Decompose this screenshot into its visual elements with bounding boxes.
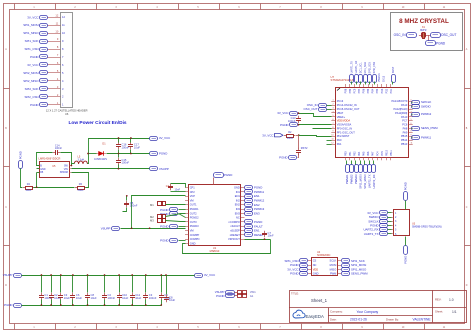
wire node to D1 anode [89, 153, 97, 155]
svg-text:10kΩ: 10kΩ [287, 137, 293, 140]
U7 right pin PC6 [402, 123, 412, 127]
net flag SPI2_CSN above U7 [373, 62, 377, 83]
net flag PGND at U6 pin 7 [30, 55, 47, 60]
svg-text:6: 6 [411, 123, 412, 125]
svg-text:PB2: PB2 [354, 151, 357, 156]
U1 right pin nRESET [230, 233, 245, 237]
wire UART1_RX to U7 top pin [356, 82, 358, 85]
connector U6 12x1.27 castellated header body [61, 13, 73, 108]
svg-text:COMPN: COMPN [190, 237, 200, 241]
svg-text:IN3: IN3 [236, 207, 241, 211]
U5 pin stubs [37, 166, 72, 173]
svg-text:PB9: PB9 [349, 88, 352, 93]
svg-text:PB4: PB4 [372, 88, 375, 93]
wire VIN to VSUPP flag [72, 168, 150, 170]
svg-text:MS8313: MS8313 [210, 249, 220, 253]
net flag PWM21 below U7 [346, 165, 350, 173]
svg-text:PA7: PA7 [372, 151, 375, 156]
U1 left pin PGND3 [185, 224, 199, 228]
U6 pin 8 [48, 45, 65, 51]
svg-text:PB8: PB8 [344, 88, 347, 93]
wire C8 top [87, 276, 89, 293]
junction C9 bottom [160, 304, 162, 306]
svg-text:PA1: PA1 [337, 142, 342, 146]
U6 pin 5 [48, 69, 65, 75]
net flag 3V_VCC at U6 pin 6 [27, 63, 47, 68]
U4 right pin PWM [330, 272, 341, 276]
U1 left pin VM [185, 229, 194, 233]
net flag SPI1_MISO at U6 pin 10 [23, 31, 47, 35]
svg-text:PGND1: PGND1 [190, 207, 199, 211]
svg-text:EN13: EN13 [382, 75, 385, 82]
net flag NRST above U7 [392, 66, 396, 82]
connector M1 [150, 202, 166, 207]
wire C1 top [41, 276, 43, 293]
svg-text:PGND: PGND [30, 103, 38, 107]
svg-text:1N5819WS: 1N5819WS [94, 158, 107, 161]
svg-text:UART1_RX: UART1_RX [355, 60, 358, 73]
wire M2 to OUT2 [166, 214, 186, 217]
svg-text:SPI2_SCK: SPI2_SCK [25, 87, 39, 91]
net flag OSC_IN (crystal) [394, 33, 417, 38]
net flag PWM13 at U1 right [245, 207, 265, 211]
U7 right pin PA12[PA10] [394, 107, 413, 111]
junction VSUPP wire 2 [149, 227, 151, 229]
wire U1 to RESET [244, 234, 246, 236]
capacitor C4 [168, 184, 173, 191]
svg-text:PC4: PC4 [376, 151, 379, 156]
net flag PGND near C13 [280, 123, 297, 127]
svg-text:U6: U6 [65, 112, 69, 116]
U7 left pin 9 PF1-OSC_OUT [331, 130, 355, 134]
U7 top pin PB6 [363, 84, 366, 93]
svg-text:OSC_OUT: OSC_OUT [441, 33, 456, 37]
net flag 3V_VCC buck output [150, 136, 171, 140]
svg-text:1: 1 [332, 100, 333, 102]
svg-text:PWM22: PWM22 [349, 174, 353, 184]
svg-text:100nF: 100nF [108, 296, 116, 300]
wire U1 to FAULT [244, 226, 246, 228]
U6 pin 2 [48, 93, 65, 99]
U7 bottom pin PB2 [354, 151, 357, 160]
svg-text:10uF: 10uF [122, 296, 128, 300]
wire C16 top [118, 139, 120, 143]
net flag PGND at PGND3 [160, 224, 177, 228]
net flag SPI1_SCK at U4 [342, 259, 365, 263]
U7 bottom pin PA6 [367, 151, 370, 160]
wire PGND to VIN1 [235, 295, 238, 297]
wire U3 shield bottom to PGND [405, 237, 407, 246]
U4 left pin NC [308, 263, 317, 267]
U4 left pin CS [308, 259, 317, 263]
svg-text:Drawn By:: Drawn By: [386, 317, 399, 321]
U3 pin 6 [391, 233, 397, 236]
net flag PGND at U1 right [245, 220, 263, 225]
U1 left pin OUT2 [185, 211, 197, 215]
U7 right pin PB15 [401, 134, 413, 138]
wire U1 to PWM13 [244, 209, 246, 211]
U1 right pin IN1 [236, 190, 245, 194]
svg-text:IN1: IN1 [236, 190, 241, 194]
junction C12 top [131, 274, 133, 276]
wire UART2_RX to U3 [388, 229, 392, 231]
svg-text:VDD: VDD [313, 267, 319, 271]
U1 right pin NC [236, 216, 244, 220]
net flag SPI1_CSN at U4 [285, 259, 308, 263]
wire C2 top [51, 276, 53, 293]
wire I2C1_SCL to U7 top pin [360, 82, 362, 85]
svg-text:PB10: PB10 [385, 150, 388, 157]
capacitor C12 bank [130, 293, 142, 301]
svg-text:M2: M2 [150, 215, 154, 219]
U3 pin 5 [391, 229, 397, 232]
U7 bottom pin PA4 [358, 151, 361, 160]
net flag PGND below U3 [403, 246, 407, 264]
junction SW/C14/L5 [71, 165, 73, 167]
svg-text:PC6: PC6 [402, 123, 408, 127]
net flag OSC_OUT at U7 [304, 107, 327, 111]
junction [130, 153, 132, 155]
svg-text:STM32G071GBU6: STM32G071GBU6 [331, 78, 355, 82]
capacitor C6 bank [70, 293, 82, 301]
svg-text:3V_VCC: 3V_VCC [277, 111, 288, 115]
svg-text:V3P3OUT: V3P3OUT [228, 237, 240, 241]
wire C5 top [126, 196, 128, 201]
svg-text:PB5: PB5 [367, 88, 370, 93]
U6 pin 6 [48, 61, 65, 67]
svg-text:Your Company: Your Company [357, 310, 379, 314]
svg-text:PWM13: PWM13 [378, 73, 381, 82]
wire U1 to PWM11 [244, 191, 246, 193]
svg-text:VIN1: VIN1 [250, 290, 256, 294]
svg-text:SM06B-SRSS-TB(LF)(SN): SM06B-SRSS-TB(LF)(SN) [412, 226, 442, 229]
svg-text:PWM23: PWM23 [354, 174, 358, 184]
svg-text:OSC_OUT: OSC_OUT [304, 107, 318, 111]
wire U7 bottom pin to UART2_TX flag [369, 161, 371, 165]
svg-text:PA13: PA13 [401, 103, 408, 107]
svg-text:PA0: PA0 [337, 138, 342, 142]
wire UART2_TX to U3 [388, 233, 392, 235]
wire C12 top [132, 276, 134, 293]
svg-text:1.0: 1.0 [449, 298, 454, 302]
wire C3 top [145, 276, 147, 293]
wire M3 to OUT3 [166, 221, 186, 222]
net flag I2C1_SCL above U7 [359, 62, 363, 83]
resistor R6 [75, 183, 86, 192]
U7 bottom pin PA5 [363, 151, 366, 160]
net flag PWM12 [412, 112, 432, 116]
net flag UART2_TX below U7 [368, 165, 372, 173]
U7 left pin 8 PF0-OSC_IN [331, 126, 352, 130]
net flag SPI1_MISO at U4 [342, 267, 368, 271]
net flag FAULT at U1 right [245, 224, 264, 228]
capacitor C8 right [164, 295, 175, 303]
wire PGND to U3 [388, 225, 392, 227]
net flag PGND second [160, 212, 177, 216]
svg-text:6: 6 [332, 119, 333, 121]
U1 right pin EN1 [235, 194, 245, 198]
svg-text:PA9: PA9 [403, 130, 408, 134]
svg-text:SHDN#: SHDN# [60, 171, 69, 174]
capacitor C2 bank [102, 293, 115, 301]
svg-text:PB14: PB14 [401, 138, 408, 142]
svg-text:PA8: PA8 [403, 126, 408, 130]
svg-text:Low Power Circuit En/Dis: Low Power Circuit En/Dis [69, 120, 127, 126]
svg-text:SPI1_MOSI: SPI1_MOSI [23, 23, 38, 27]
wire D1 cathode to PGND flag [107, 153, 150, 155]
net flag EN3 at U1 right [245, 211, 261, 215]
capacitor C5 [124, 201, 138, 208]
svg-text:3V_VCC: 3V_VCC [27, 15, 38, 19]
junction C3 bottom [145, 304, 147, 306]
svg-text:I2C1_SDA: I2C1_SDA [364, 62, 367, 74]
U1 right pin nFAULT [230, 224, 244, 228]
svg-text:PGND: PGND [159, 152, 167, 156]
net flag PGND at PGND1 [160, 208, 177, 212]
junction C2 bottom [104, 304, 106, 306]
net flag 3V_VCC at U6 pin 12 [27, 15, 47, 19]
crystal X1 [419, 26, 431, 41]
svg-text:PGND: PGND [280, 123, 288, 127]
net flag PGND left of U5 [18, 151, 22, 168]
svg-text:CS: CS [313, 259, 317, 263]
U4 right pin MISO [330, 267, 341, 271]
svg-text:100nF: 100nF [149, 296, 157, 300]
junction C3 bottom [60, 304, 62, 306]
svg-text:PGND2: PGND2 [190, 216, 199, 220]
wire SWCLK to U3 [388, 221, 392, 223]
U4 left pin VDD [308, 267, 318, 271]
svg-text:TITLE:: TITLE: [291, 292, 299, 296]
svg-text:8: 8 [332, 127, 333, 129]
svg-text:Sheet:: Sheet: [435, 310, 443, 314]
junction C10 bottom [118, 304, 120, 306]
C13 pin links [297, 114, 300, 125]
U7 bottom pin PB0 [344, 151, 347, 160]
U6 pin 1 [48, 101, 65, 107]
net flag PGND above U1 [214, 173, 233, 178]
U7 bottom pin PA7 [372, 151, 375, 160]
svg-text:LMR14006YDDCR: LMR14006YDDCR [39, 157, 61, 161]
U1 right pin IN3 [236, 207, 245, 211]
U3 pin 1 [391, 212, 397, 215]
svg-text:PC7: PC7 [402, 119, 408, 123]
junction C9 top [160, 274, 162, 276]
svg-text:Date:: Date: [330, 317, 337, 321]
net flag PGND at U4 [290, 272, 307, 276]
net flag 3V_VCC arrow at R2 [262, 133, 283, 137]
net flag SPI1_CSN at U6 pin 8 [25, 47, 48, 51]
svg-text:PB6: PB6 [363, 88, 366, 93]
net flag SPI2_MOSI at U6 pin 5 [23, 71, 47, 75]
svg-text:MISO: MISO [330, 267, 337, 271]
wire U1 to EN1 [244, 230, 246, 232]
wire C14 to SW [61, 153, 72, 166]
U7 left pin 12 PA1 [331, 142, 342, 146]
wire GND loop under U1 [183, 240, 271, 254]
U7 left pin 5 VREF+ [331, 115, 345, 119]
wire C9 bottom [161, 300, 163, 306]
title block [289, 290, 467, 322]
U4 right pin SCLK [330, 259, 341, 263]
wire U1 to EN3 [244, 213, 246, 215]
wire C2 top [104, 276, 106, 293]
net flag UART2_RX below U7 [372, 165, 376, 173]
net flag 3V_VCC near C13 [277, 111, 297, 115]
capacitor C7 at V3P3OUT [262, 231, 274, 238]
junction C2 top [104, 274, 106, 276]
wire C15 top [118, 154, 120, 158]
connector VIN1 [238, 290, 257, 298]
svg-text:OUT3: OUT3 [190, 220, 197, 224]
net flag UART2_TX at U3 [364, 232, 388, 236]
svg-text:I2C1_SCL: I2C1_SCL [360, 62, 363, 74]
U7 bottom pin PC4 [376, 151, 379, 161]
svg-text:UART2_TX: UART2_TX [364, 232, 379, 236]
svg-text:SWCLK: SWCLK [421, 100, 431, 104]
U1 right pin nSLEEP [230, 229, 245, 233]
wire U7 bottom pin to UART2_RX flag [373, 161, 375, 165]
U7 left pin 1 PC13 [331, 99, 343, 103]
svg-text:9: 9 [332, 131, 333, 133]
wire C4 bottom to CP2 [171, 191, 186, 193]
svg-text:8MHz: 8MHz [420, 29, 427, 32]
U1 left pin VM [185, 198, 194, 202]
svg-text:PGND: PGND [216, 294, 224, 298]
junction C6 bottom [72, 304, 74, 306]
svg-text:11: 11 [411, 142, 413, 144]
svg-text:M3: M3 [150, 218, 154, 222]
junction C6 top [72, 274, 74, 276]
svg-text:100nF: 100nF [122, 161, 130, 165]
svg-text:PA14-BOOT0: PA14-BOOT0 [391, 99, 407, 103]
svg-text:PF0-OSC_IN: PF0-OSC_IN [337, 126, 352, 130]
svg-text:nFAULT: nFAULT [230, 224, 240, 228]
net flag PGND at VIN1 [216, 294, 234, 298]
svg-text:SPI1_MISO: SPI1_MISO [23, 31, 39, 35]
wire C9 top [161, 276, 163, 293]
svg-text:VDD/VDDA: VDD/VDDA [337, 119, 351, 123]
svg-text:12 X 1.27 CASTELLATED HEADER: 12 X 1.27 CASTELLATED HEADER [46, 109, 88, 113]
svg-text:VREF+: VREF+ [337, 115, 346, 119]
capacitor C9 bank [159, 293, 171, 301]
wire U7 bottom pin to SPI2_MOSI flag [360, 161, 362, 165]
U7 right pin PB14 [401, 138, 413, 142]
U7 top pin PB9 [349, 84, 352, 93]
svg-text:VSUPP: VSUPP [3, 273, 13, 277]
junction C3 top [60, 274, 62, 276]
net flag PWM23 below U7 [355, 165, 359, 173]
svg-text:PC15-OSC32_OUT: PC15-OSC32_OUT [337, 107, 360, 111]
U7 right pin PA13 [401, 103, 413, 107]
svg-text:PGND: PGND [224, 173, 232, 177]
svg-text:COMPP: COMPP [190, 233, 200, 237]
net flag RESET at U1 right [245, 233, 264, 237]
capacitor C3 bank [143, 293, 157, 301]
wire C1 bottom [41, 300, 43, 306]
wire U7 bottom pin to PWM21 flag [346, 161, 348, 165]
svg-text:10uF: 10uF [64, 296, 70, 300]
svg-text:VALENTINE: VALENTINE [413, 318, 432, 322]
connector U3 body [394, 210, 410, 236]
U7 top pin PB5 [367, 84, 370, 93]
net flag SWDIO [412, 105, 432, 109]
wire U1 to PGND [244, 187, 246, 189]
svg-text:REV:: REV: [435, 298, 442, 302]
net flag PWM12 at U1 right [245, 199, 265, 203]
U1 left pin COMPP [185, 233, 199, 237]
svg-text:PB7: PB7 [358, 88, 361, 93]
svg-text:Company:: Company: [330, 310, 343, 314]
junction C5/VM [126, 195, 128, 197]
U7 right pin PC7 [402, 119, 412, 123]
svg-text:10: 10 [331, 135, 333, 137]
wire C15 bottom [118, 165, 120, 169]
U7 top pin PB4 [372, 84, 375, 93]
capacitor C14 [53, 144, 63, 155]
U7 top pin PD3 [381, 84, 384, 93]
svg-text:CP1: CP1 [190, 186, 196, 190]
wire VSUPP to VIN1 [235, 292, 238, 294]
U6 pin 3 [48, 85, 65, 91]
net flag 3V_VCC at U4 [287, 267, 307, 271]
U4 right pin MOSI [330, 263, 341, 267]
net flag EN1 at U1 right [245, 194, 261, 198]
svg-text:SPI1_SCK: SPI1_SCK [25, 39, 39, 43]
net flag VSUPP at driver [101, 226, 120, 230]
svg-text:3V_VCC: 3V_VCC [159, 136, 170, 140]
EasyEDA logo [293, 310, 324, 319]
svg-text:100nF: 100nF [122, 145, 130, 149]
wire U7 bottom pin to PWM22 flag [351, 161, 353, 165]
svg-text:PGND: PGND [160, 239, 168, 243]
U7 top pin PB8 [344, 84, 347, 93]
U7 top pin PB3 [376, 84, 379, 93]
U7 top pin PD2 [385, 84, 388, 94]
U1 left pin OUT1 [185, 203, 197, 207]
U7 top pin PB7 [358, 84, 361, 93]
wire I2C1_SDA to U7 top pin [365, 82, 367, 85]
net flag VSUPP at VIN1 [215, 290, 235, 294]
U7 right pin PA10 [401, 115, 413, 119]
wire C2 bottom [104, 300, 106, 306]
wire PGND to U1 PGND3 [179, 226, 186, 228]
svg-text:PD3: PD3 [381, 88, 384, 93]
wire RST2 to U7 PF2-NRST [299, 136, 332, 137]
wire C19 to PGND [298, 154, 299, 158]
U7 left pin 6 VDD/VDDA [331, 119, 350, 123]
junction C12 bottom [131, 304, 133, 306]
svg-text:EasyEDA: EasyEDA [306, 314, 325, 319]
svg-text:3V_VCC: 3V_VCC [204, 273, 215, 277]
svg-text:10uF: 10uF [169, 298, 175, 302]
svg-text:PGND: PGND [403, 182, 407, 190]
net flag SPI2_CSN at U6 pin 2 [25, 95, 48, 99]
net flag PGND cap bank [4, 303, 21, 307]
svg-text:3V_VCC: 3V_VCC [262, 133, 273, 137]
net flag SPI2_MOSI below U7 [359, 165, 363, 173]
svg-text:M1: M1 [150, 203, 154, 207]
junction C8 bottom [87, 304, 89, 306]
wire PGND to U1 COMPN [179, 240, 186, 242]
wire PGND rail cap bank [22, 305, 162, 307]
svg-text:10nF: 10nF [268, 234, 274, 238]
U7 right pin PA14-BOOT0 [391, 99, 412, 103]
svg-text:PC14-OSC32_IN: PC14-OSC32_IN [337, 103, 357, 107]
net flag PWM11 at U1 right [245, 190, 265, 194]
svg-text:10uF: 10uF [134, 145, 140, 149]
svg-text:PB3: PB3 [376, 88, 379, 93]
